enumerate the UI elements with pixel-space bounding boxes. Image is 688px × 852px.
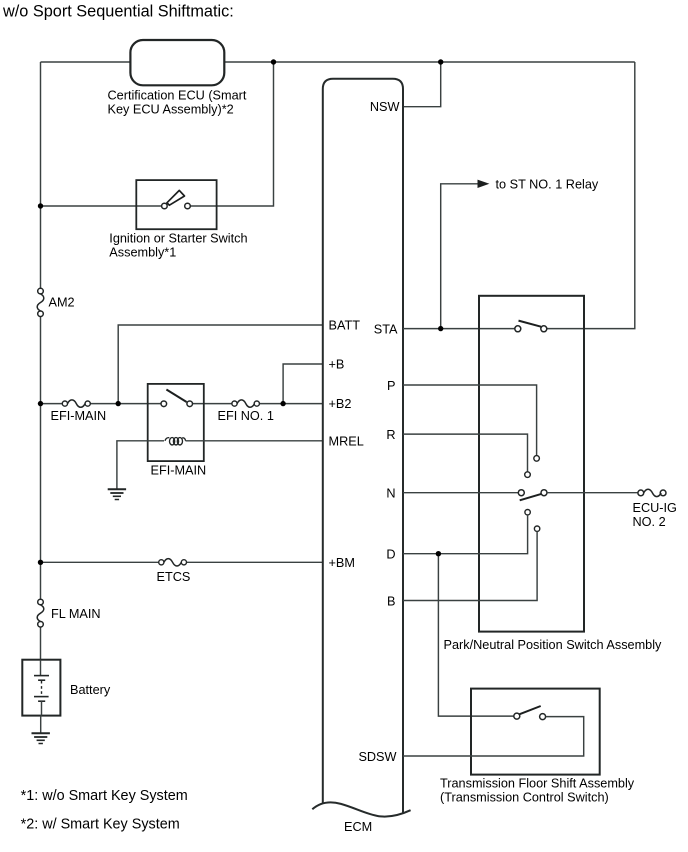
relay switch contacts	[161, 401, 167, 407]
svg-text:EFI NO. 1: EFI NO. 1	[218, 409, 274, 423]
fuse EFI NO. 1	[218, 400, 274, 423]
ignition or starter switch box	[109, 180, 247, 259]
svg-text:STA: STA	[374, 322, 398, 336]
wire: floor shift switch to SDSW	[403, 717, 584, 756]
wire: B branch	[403, 531, 537, 600]
svg-text:EFI-MAIN: EFI-MAIN	[151, 464, 207, 478]
svg-text:Ignition or Starter Switch: Ignition or Starter Switch	[109, 232, 247, 246]
arrowhead to ST NO. 1 Relay	[478, 180, 490, 188]
battery dashed link	[41, 681, 43, 696]
wire: battery to ground	[40, 716, 42, 733]
svg-text:*1: w/o Smart Key System: *1: w/o Smart Key System	[21, 788, 188, 804]
svg-text:Transmission Floor Shift Assem: Transmission Floor Shift Assembly	[440, 777, 635, 791]
ground (battery)	[32, 733, 50, 743]
svg-text:R: R	[386, 428, 395, 442]
svg-text:EFI-MAIN: EFI-MAIN	[51, 409, 107, 423]
fuse ETCS	[157, 559, 191, 584]
svg-text:BATT: BATT	[329, 319, 361, 333]
junction dot D branch	[436, 551, 441, 556]
svg-text:+B2: +B2	[329, 397, 352, 411]
wire: +B branch	[283, 364, 323, 404]
svg-text:ECM: ECM	[344, 820, 372, 834]
svg-text:SDSW: SDSW	[358, 750, 396, 764]
wire: STA net	[403, 328, 515, 330]
svg-text:B: B	[387, 594, 395, 608]
svg-text:ECU-IG: ECU-IG	[633, 501, 677, 515]
svg-text:MREL: MREL	[329, 434, 364, 448]
battery internal wire bottom	[41, 701, 43, 715]
park/neutral position switch assembly box	[479, 296, 584, 632]
junction dot BATT drop	[116, 401, 121, 406]
svg-text:NO. 2: NO. 2	[633, 515, 666, 529]
N switch contacts	[518, 490, 524, 496]
battery plates cell 2	[34, 696, 49, 698]
wire: D branch	[403, 515, 528, 554]
floor shift switch contacts	[514, 713, 520, 719]
ECM box	[312, 79, 410, 834]
wire: ignition branch left	[41, 205, 162, 207]
svg-text:Key ECU Assembly)*2: Key ECU Assembly)*2	[108, 103, 234, 117]
ground (relay coil)	[108, 489, 126, 499]
fuse EFI-MAIN	[51, 400, 107, 423]
certification ECU box	[130, 40, 224, 85]
svg-text:(Transmission Control Switch): (Transmission Control Switch)	[440, 790, 609, 804]
junction dot ignition branch	[38, 203, 43, 208]
junction dot top bus / NSW	[438, 59, 443, 64]
EFI-MAIN relay box	[148, 384, 206, 478]
R open contact	[525, 472, 531, 478]
svg-text:NSW: NSW	[370, 100, 400, 114]
B open contact	[534, 526, 539, 531]
svg-text:AM2: AM2	[49, 296, 75, 310]
svg-text:*2: w/ Smart Key System: *2: w/ Smart Key System	[21, 816, 180, 832]
wire: ignition branch right up to top bus	[190, 62, 273, 206]
P open contact	[534, 456, 540, 462]
svg-text:Certification ECU (Smart: Certification ECU (Smart	[108, 89, 247, 103]
relay coil	[165, 438, 186, 445]
wire: D to transmission floor shift switch	[438, 554, 513, 716]
fuse AM2	[37, 288, 74, 316]
wire: top horizontal bus	[41, 61, 635, 63]
svg-text:+B: +B	[329, 358, 345, 372]
relay switch blade	[166, 390, 186, 403]
svg-text:D: D	[386, 548, 395, 562]
svg-text:to ST NO. 1 Relay: to ST NO. 1 Relay	[496, 178, 599, 192]
svg-text:Assembly*1: Assembly*1	[109, 245, 176, 259]
fuse FL MAIN	[37, 599, 100, 627]
wire: R branch	[403, 434, 528, 472]
ignition switch contacts and key wedge	[162, 203, 168, 209]
wire: to ST NO.1 relay stub	[441, 184, 479, 329]
junction dot top bus / cert ECU right	[271, 59, 276, 64]
wire: BATT branch	[118, 325, 323, 404]
junction dot +BM / left bus	[38, 560, 43, 565]
svg-text:w/o Sport Sequential Shiftmati: w/o Sport Sequential Shiftmatic:	[2, 3, 234, 21]
svg-text:Battery: Battery	[70, 683, 111, 697]
svg-text:+BM: +BM	[329, 556, 355, 570]
N switch blade	[520, 494, 542, 500]
STA switch blade	[519, 321, 542, 327]
wire: N net right to ECU-IG fuse	[547, 492, 638, 494]
wire: MREL net and coil ground drop	[117, 441, 323, 489]
D open contact	[525, 510, 530, 515]
junction dot +B2 / left bus	[38, 401, 43, 406]
svg-text:FL MAIN: FL MAIN	[51, 607, 101, 621]
wire: right vertical to STA switch	[547, 62, 635, 329]
junction dot +B drop	[280, 401, 285, 406]
svg-text:ETCS: ETCS	[157, 570, 191, 584]
STA switch contacts in P/N box	[515, 326, 521, 332]
svg-text:Park/Neutral Position Switch A: Park/Neutral Position Switch Assembly	[444, 638, 663, 652]
battery plates cell 1	[34, 675, 49, 677]
transmission floor shift assembly box	[471, 689, 600, 775]
svg-text:N: N	[386, 486, 395, 500]
junction dot STA / relay stub	[438, 326, 443, 331]
wire: P branch	[403, 385, 537, 456]
battery	[22, 660, 111, 716]
battery internal wire top	[40, 660, 42, 676]
wire: +B2 bus	[41, 403, 323, 405]
floor shift switch blade	[519, 706, 540, 714]
wire: NSW net from top bus	[403, 62, 441, 107]
wire: +BM / ETCS branch	[41, 561, 323, 563]
svg-text:P: P	[387, 379, 395, 393]
wire: left vertical bus	[40, 62, 42, 660]
wire: N net left	[403, 492, 518, 494]
ECM bottom wave	[312, 802, 410, 816]
fuse ECU-IG NO. 2	[633, 489, 677, 529]
